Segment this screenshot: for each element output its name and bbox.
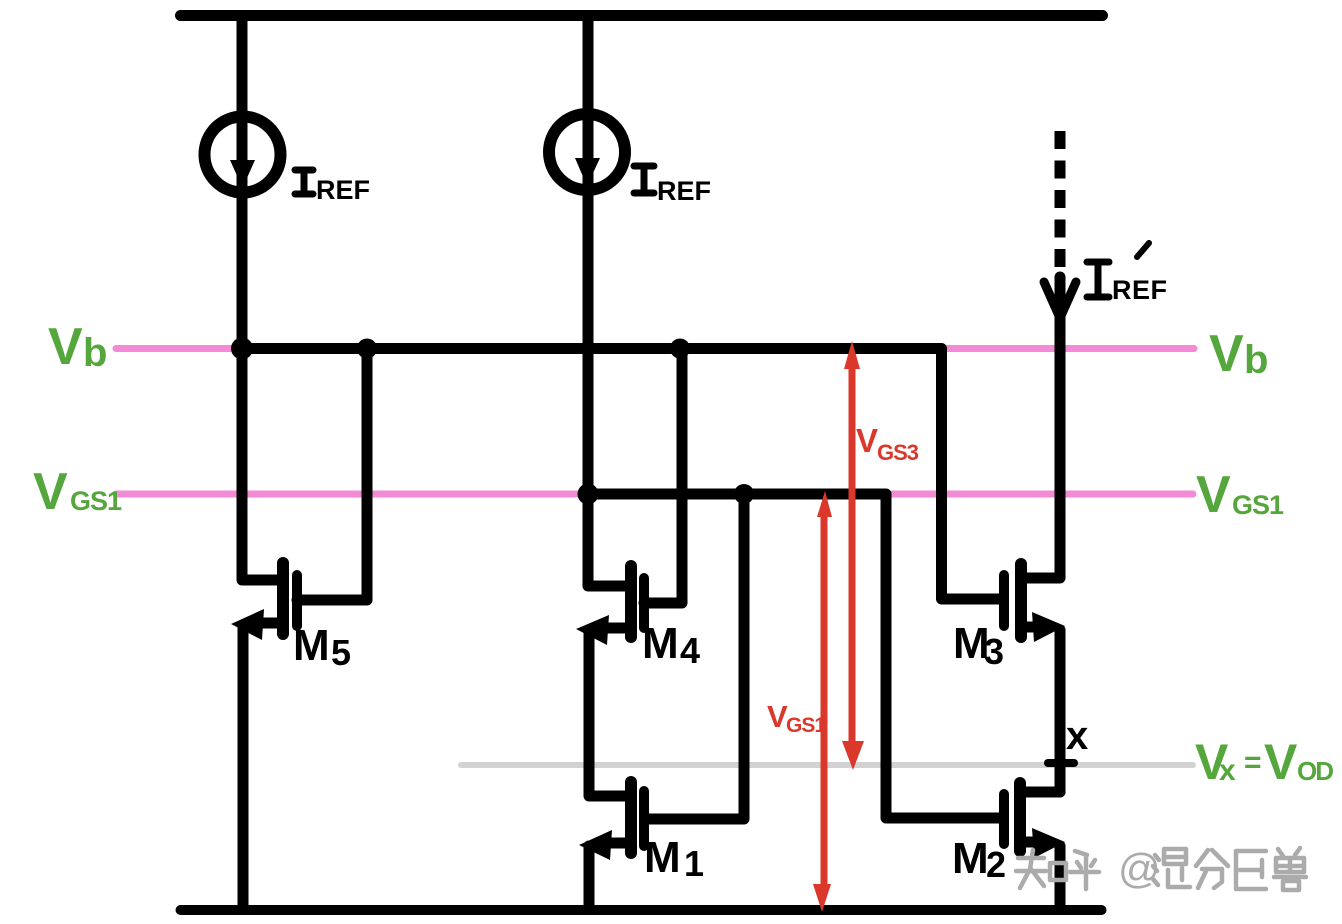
wire: M4 source to M1 drain [589, 630, 631, 796]
junction dot VGS1 / M1 gate [734, 484, 754, 504]
svg-text:OD: OD [1297, 756, 1333, 786]
net Vb (pink rail) [116, 345, 1194, 352]
net VGS1 (pink rail) [116, 491, 1193, 498]
svg-text:b: b [1244, 338, 1268, 382]
wire: I'REF dashed line [1055, 131, 1066, 276]
label IREF2 [634, 166, 654, 193]
label IREF1 [295, 170, 313, 194]
arrow VGS3 (red, double-headed) [842, 341, 864, 770]
svg-text:GS1: GS1 [70, 486, 122, 516]
transistor M1 [579, 782, 644, 905]
wire: M3 drain up [1021, 277, 1060, 578]
svg-text:M: M [952, 834, 989, 883]
svg-text:REF: REF [657, 176, 711, 206]
svg-text:2: 2 [986, 844, 1006, 885]
svg-text:1: 1 [684, 843, 704, 884]
svg-text:GS3: GS3 [877, 440, 919, 465]
watermark: 知乎 @混分巨兽 (gray, stroke approximation) [1016, 848, 1306, 890]
watermark char 巨 [1236, 851, 1266, 889]
arrow VGS1 (red, double-headed) [813, 491, 832, 912]
junction dot Vb / M4 gate [670, 339, 690, 359]
transistor M3 [1004, 564, 1065, 792]
wire: left branch (IREF1 to M5 drain) [242, 16, 283, 580]
wire: ground bottom rail [181, 905, 1102, 915]
svg-text:V: V [1196, 466, 1231, 524]
node x tick [1048, 759, 1074, 767]
svg-text:M: M [644, 833, 681, 882]
svg-text:M: M [642, 619, 679, 668]
junction dot Vb / M5 drain [231, 338, 253, 360]
svg-text:3: 3 [984, 631, 1004, 672]
svg-text:5: 5 [331, 632, 351, 673]
svg-text:M: M [293, 621, 330, 670]
junction dot VGS1 / M4 drain [578, 484, 599, 505]
I'REF arrowhead [1044, 282, 1076, 318]
svg-text:x: x [1066, 714, 1088, 758]
svg-text:GS1: GS1 [1232, 490, 1284, 520]
svg-text:REF: REF [316, 175, 370, 205]
svg-text:V: V [856, 422, 878, 459]
watermark char 兽 [1274, 848, 1306, 877]
wire: mid branch (IREF2 to M4 drain) [588, 16, 631, 586]
svg-text:REF: REF [1112, 275, 1168, 305]
wire: VGS1 node to M2 gate [588, 494, 1000, 818]
svg-text:GS1: GS1 [786, 714, 826, 737]
wire: M5 gate to Vb [297, 353, 367, 600]
watermark char 乎 [1070, 851, 1099, 889]
net Vx (gray line) [461, 762, 1193, 768]
wire: M4 gate to Vb [644, 353, 682, 603]
wire: VDD top rail [181, 10, 1103, 21]
wire: M1 gate to VGS1 [645, 499, 744, 819]
current source IREF2 [549, 114, 625, 190]
svg-text:V: V [767, 699, 788, 734]
label I'REF [1087, 243, 1149, 297]
svg-text:=: = [1244, 746, 1262, 779]
wire: Vb bus and M3 gate [242, 349, 1000, 600]
svg-text:V: V [1209, 325, 1244, 383]
transistor M2 [1004, 783, 1065, 905]
svg-text:x: x [1219, 754, 1236, 787]
svg-text:V: V [1264, 734, 1298, 790]
current source IREF1 [205, 117, 281, 193]
watermark char 知 [1016, 850, 1046, 888]
svg-text:V: V [48, 318, 83, 376]
transistor M4 [576, 566, 644, 645]
watermark char 分 [1196, 850, 1228, 888]
svg-text:@: @ [1118, 845, 1161, 892]
svg-text:4: 4 [680, 630, 700, 671]
junction dot Vb / M5 gate [357, 339, 377, 359]
IREF2 arrow [575, 158, 600, 186]
svg-text:V: V [33, 463, 68, 521]
svg-text:b: b [83, 331, 107, 375]
IREF1 arrow [230, 160, 255, 188]
watermark char 混 [1153, 855, 1159, 885]
transistor M5 [231, 563, 297, 905]
